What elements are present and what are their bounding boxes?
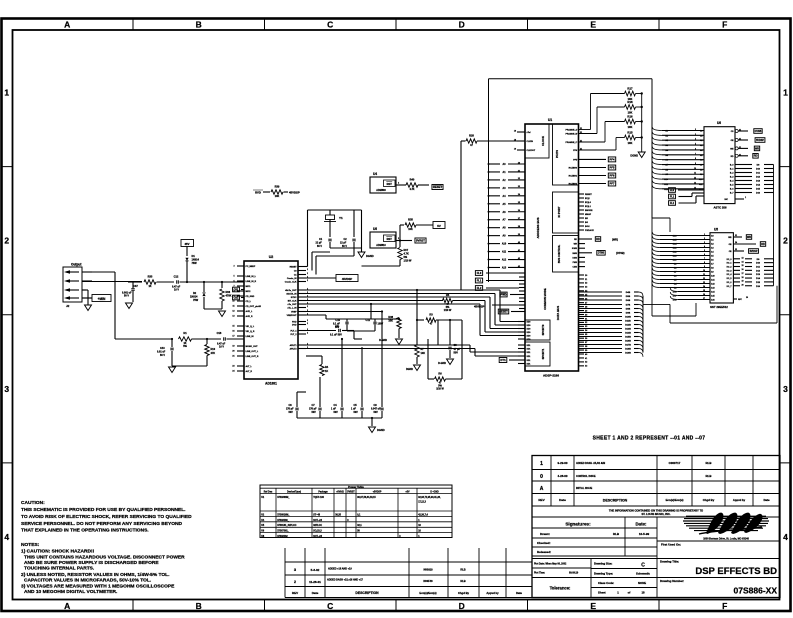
svg-text:SYNC: SYNC bbox=[291, 297, 297, 299]
svg-text:C12: C12 bbox=[174, 275, 179, 279]
svg-text:13: 13 bbox=[703, 282, 705, 284]
svg-text:Chgd By: Chgd By bbox=[703, 498, 715, 502]
svg-text:D: D bbox=[459, 20, 465, 30]
svg-text:AFILT1: AFILT1 bbox=[290, 344, 298, 347]
svg-text:SO,23,3: SO,23,3 bbox=[313, 531, 322, 533]
svg-text:PWDACK: PWDACK bbox=[585, 229, 595, 232]
svg-text:D13B: D13B bbox=[625, 329, 631, 331]
svg-text:18: 18 bbox=[514, 148, 516, 150]
svg-text:B: B bbox=[196, 601, 202, 611]
svg-text:RESET: RESET bbox=[585, 194, 592, 196]
svg-text:DT0B: DT0B bbox=[598, 252, 605, 255]
svg-text:BUS CONTROL: BUS CONTROL bbox=[558, 244, 561, 263]
svg-text:50 V: 50 V bbox=[317, 245, 322, 248]
svg-text:A: A bbox=[64, 20, 70, 30]
svg-text:F: F bbox=[722, 601, 727, 611]
svg-text:16: 16 bbox=[742, 269, 744, 271]
svg-text:FLT_2: FLT_2 bbox=[291, 334, 298, 336]
svg-text:C16: C16 bbox=[217, 331, 222, 335]
svg-text:BGH: BGH bbox=[585, 226, 590, 228]
svg-text:D11B: D11B bbox=[625, 321, 631, 323]
svg-text:D5B: D5B bbox=[626, 296, 631, 298]
svg-text:30: 30 bbox=[746, 297, 748, 299]
svg-text:Date: Date bbox=[763, 498, 770, 502]
svg-text:Date: Date bbox=[312, 591, 319, 595]
svg-text:IRQL0: IRQL0 bbox=[585, 202, 592, 204]
svg-text:J2: J2 bbox=[66, 304, 70, 308]
svg-text:CD_L: CD_L bbox=[246, 301, 252, 303]
svg-text:DVD: DVD bbox=[292, 325, 297, 327]
svg-text:B: B bbox=[196, 20, 202, 30]
svg-text:17: 17 bbox=[232, 336, 234, 338]
svg-text:xTa_OUT: xTa_OUT bbox=[288, 304, 298, 306]
svg-text:REV: REV bbox=[292, 591, 298, 595]
svg-text:10: 10 bbox=[694, 168, 696, 170]
svg-text:CAPACITOR VALUES IN MICROFARAD: CAPACITOR VALUES IN MICROFARADS, 50V-10%… bbox=[24, 578, 152, 584]
svg-text:SOT--23: SOT--23 bbox=[313, 536, 322, 538]
svg-text:19: 19 bbox=[742, 281, 744, 283]
svg-text:N/C: N/C bbox=[738, 299, 742, 301]
svg-text:32,1: 32,1 bbox=[357, 525, 362, 527]
svg-text:THIS SCHEMATIC IS PROVIDED FOR: THIS SCHEMATIC IS PROVIDED FOR USE BY QU… bbox=[21, 507, 186, 513]
svg-text:31: 31 bbox=[518, 170, 520, 172]
svg-text:2: 2 bbox=[307, 269, 308, 271]
svg-text:R16: R16 bbox=[627, 114, 633, 118]
svg-text:10: 10 bbox=[232, 301, 234, 303]
svg-text:4: 4 bbox=[4, 532, 9, 542]
svg-text:RLB: RLB bbox=[706, 474, 712, 478]
svg-text:(WR): (WR) bbox=[612, 238, 618, 242]
svg-text:5VRST: 5VRST bbox=[416, 239, 425, 243]
svg-text:50V: 50V bbox=[354, 411, 359, 414]
svg-text:Package: Package bbox=[318, 492, 328, 494]
svg-text:DSP EFFECTS BD: DSP EFFECTS BD bbox=[695, 566, 777, 577]
svg-text:PF4: PF4 bbox=[610, 157, 615, 161]
svg-text:BMODE: BMODE bbox=[585, 210, 593, 212]
svg-text:18: 18 bbox=[514, 130, 516, 132]
svg-text:MIC2: MIC2 bbox=[246, 291, 252, 293]
svg-text:IO PORT: IO PORT bbox=[557, 206, 561, 217]
svg-text:+5V: +5V bbox=[405, 492, 410, 494]
svg-text:6: 6 bbox=[695, 148, 696, 150]
svg-text:R39: R39 bbox=[275, 185, 280, 189]
svg-text:1: 1 bbox=[745, 197, 746, 199]
svg-text:PC_BEEP: PC_BEEP bbox=[246, 266, 256, 268]
svg-text:R6: R6 bbox=[438, 372, 442, 376]
svg-text:C: C bbox=[327, 20, 333, 30]
svg-text:C: C bbox=[327, 601, 333, 611]
svg-text:4-28-00: 4-28-00 bbox=[558, 474, 568, 478]
svg-text:07S886-XX: 07S886-XX bbox=[734, 586, 778, 596]
svg-text:30: 30 bbox=[518, 162, 520, 164]
svg-text:LINE_IN: LINE_IN bbox=[246, 336, 254, 338]
svg-text:1: 1 bbox=[783, 88, 788, 98]
svg-text:MONO_OUT: MONO_OUT bbox=[246, 346, 259, 348]
svg-text:RCZBR2: RCZBR2 bbox=[569, 184, 578, 186]
svg-text:U1: U1 bbox=[548, 118, 552, 122]
svg-text:Y1: Y1 bbox=[339, 216, 343, 220]
svg-text:17: 17 bbox=[742, 273, 744, 275]
svg-text:N/C: N/C bbox=[725, 199, 729, 201]
svg-text:14: 14 bbox=[694, 186, 696, 189]
svg-text:A12: A12 bbox=[502, 259, 507, 262]
svg-text:DGND: DGND bbox=[630, 154, 638, 158]
svg-text:Tolerance:: Tolerance: bbox=[550, 586, 571, 591]
svg-text:BIT_CLK: BIT_CLK bbox=[288, 301, 297, 303]
svg-text:11: 11 bbox=[694, 173, 696, 175]
svg-text:SPORT0: SPORT0 bbox=[541, 324, 545, 335]
svg-text:C37: C37 bbox=[133, 284, 138, 288]
svg-text:SDATA_IN: SDATA_IN bbox=[286, 293, 297, 296]
svg-text:2: 2 bbox=[704, 238, 705, 240]
svg-text:1: 1 bbox=[4, 88, 9, 98]
svg-text:TOUCHING INTERNAL PARTS.: TOUCHING INTERNAL PARTS. bbox=[24, 566, 95, 572]
svg-text:LINE_IN_R: LINE_IN_R bbox=[246, 281, 257, 283]
svg-text:IRQL1: IRQL1 bbox=[585, 206, 592, 208]
svg-text:AD1881: AD1881 bbox=[265, 382, 277, 386]
svg-text:D16B: D16B bbox=[625, 341, 631, 343]
svg-text:N00F46: N00F46 bbox=[423, 579, 433, 583]
svg-text:xTal: xTal bbox=[527, 132, 531, 134]
svg-text:8: 8 bbox=[704, 262, 705, 264]
svg-text:R3: R3 bbox=[429, 313, 433, 317]
svg-text:1/10 W: 1/10 W bbox=[436, 388, 444, 391]
svg-text:CB1: CB1 bbox=[234, 288, 239, 291]
svg-text:470K: 470K bbox=[226, 295, 232, 298]
svg-text:D19B: D19B bbox=[625, 353, 631, 355]
svg-text:FL2: FL2 bbox=[670, 202, 675, 205]
svg-text:2: 2 bbox=[695, 129, 696, 131]
svg-text:xTa_L_IN: xTa_L_IN bbox=[287, 308, 297, 310]
svg-text:D--GND: D--GND bbox=[430, 492, 439, 494]
svg-text:R10: R10 bbox=[211, 348, 216, 351]
svg-text:45VDSP: 45VDSP bbox=[289, 191, 300, 195]
svg-text:AND BE SURE POWER SUPPLY IS DI: AND BE SURE POWER SUPPLY IS DISCHARGED B… bbox=[24, 560, 159, 566]
svg-text:TO AVOID RISK OF ELECTRIC SHOC: TO AVOID RISK OF ELECTRIC SHOCK, REFER S… bbox=[21, 514, 192, 520]
svg-text:96,97,56,34,18,15: 96,97,56,34,18,15 bbox=[357, 496, 376, 499]
svg-text:37S18162_: 37S18162_ bbox=[277, 536, 289, 538]
svg-text:1/10 W: 1/10 W bbox=[404, 260, 413, 263]
svg-text:Plot Date: When May 06, 2002: Plot Date: When May 06, 2002 bbox=[534, 563, 567, 566]
svg-text:R40: R40 bbox=[410, 178, 415, 182]
svg-text:U4: U4 bbox=[373, 172, 377, 176]
svg-text:2: 2 bbox=[307, 320, 308, 322]
svg-text:RVD: RVD bbox=[255, 191, 261, 195]
svg-text:50V: 50V bbox=[454, 352, 459, 355]
svg-text:5VDSP: 5VDSP bbox=[756, 139, 764, 142]
svg-text:ST. LOUIS MUSIC, INC.: ST. LOUIS MUSIC, INC. bbox=[641, 512, 670, 516]
svg-text:21: 21 bbox=[232, 356, 234, 358]
svg-text:+5VA/2: +5VA/2 bbox=[336, 491, 344, 494]
svg-text:2: 2 bbox=[307, 306, 308, 308]
svg-text:09:09:19: 09:09:19 bbox=[569, 573, 579, 575]
svg-text:PF27S: PF27S bbox=[555, 150, 559, 158]
svg-text:DT1: DT1 bbox=[500, 358, 506, 362]
svg-text:12: 12 bbox=[694, 178, 696, 180]
svg-text:45VDSP: 45VDSP bbox=[342, 277, 353, 281]
svg-text:WR: WR bbox=[747, 236, 751, 239]
svg-text:RST: RST bbox=[387, 182, 393, 186]
svg-text:PF5: PF5 bbox=[610, 165, 615, 169]
svg-text:4: 4 bbox=[704, 245, 705, 248]
svg-text:CD_OUT_ph/dif: CD_OUT_ph/dif bbox=[246, 306, 262, 308]
svg-text:3: 3 bbox=[783, 384, 788, 394]
svg-text:16 V: 16 V bbox=[174, 289, 179, 292]
svg-text:D10B: D10B bbox=[625, 317, 631, 319]
svg-text:R15: R15 bbox=[627, 130, 633, 134]
svg-text:RD: RD bbox=[596, 238, 600, 241]
svg-text:Chgd By: Chgd By bbox=[458, 591, 470, 595]
svg-text:U6: U6 bbox=[717, 121, 721, 125]
svg-text:4: 4 bbox=[783, 532, 788, 542]
svg-text:Class Code:: Class Code: bbox=[598, 581, 614, 585]
svg-text:18: 18 bbox=[742, 277, 744, 279]
svg-text:D8B: D8B bbox=[626, 309, 631, 311]
svg-text:5V: 5V bbox=[437, 224, 441, 228]
svg-text:Date:: Date: bbox=[636, 522, 648, 527]
svg-text:1: 1 bbox=[704, 234, 705, 236]
svg-text:DMS: DMS bbox=[573, 257, 578, 259]
svg-text:CLOCK: CLOCK bbox=[541, 136, 545, 146]
svg-text:CVSB: CVSB bbox=[755, 130, 762, 133]
svg-text:THAT EXPLAINED IN THE OPERATIN: THAT EXPLAINED IN THE OPERATING INSTRUCT… bbox=[21, 528, 149, 534]
svg-text:INITIAL ISSUE: INITIAL ISSUE bbox=[576, 487, 593, 490]
svg-text:3: 3 bbox=[695, 134, 696, 136]
svg-text:DESCRIPTION: DESCRIPTION bbox=[355, 591, 379, 595]
svg-text:D9B: D9B bbox=[626, 313, 631, 315]
svg-text:17: 17 bbox=[703, 298, 705, 300]
svg-text:38: 38 bbox=[518, 226, 520, 228]
svg-text:11: 11 bbox=[703, 274, 705, 276]
svg-text:33: 33 bbox=[518, 186, 520, 188]
svg-text:E: E bbox=[590, 601, 596, 611]
svg-text:R18: R18 bbox=[627, 100, 633, 104]
svg-text:20: 20 bbox=[232, 351, 234, 353]
svg-text:75W: 75W bbox=[193, 299, 199, 302]
svg-text:ASTC 206: ASTC 206 bbox=[713, 206, 727, 210]
svg-text:R28: R28 bbox=[469, 134, 474, 138]
svg-text:2: 2 bbox=[294, 580, 296, 584]
svg-text:LINE_OUT_R: LINE_OUT_R bbox=[246, 356, 259, 358]
svg-text:PRAMSE_C: PRAMSE_C bbox=[565, 141, 577, 144]
svg-text:Drawn:: Drawn: bbox=[540, 532, 550, 536]
svg-text:COMMON MODE: COMMON MODE bbox=[543, 288, 547, 310]
svg-text:3: 3 bbox=[704, 242, 705, 244]
svg-text:10K: 10K bbox=[628, 141, 633, 145]
svg-text:C000717: C000717 bbox=[669, 461, 681, 465]
svg-text:D14B: D14B bbox=[625, 332, 631, 335]
svg-text:10K: 10K bbox=[628, 125, 633, 129]
svg-text:RCZBR0: RCZBR0 bbox=[569, 168, 578, 170]
svg-text:ADSP-2186: ADSP-2186 bbox=[543, 374, 559, 378]
svg-text:U2: U2 bbox=[269, 255, 274, 259]
svg-text:42,36,7,4: 42,36,7,4 bbox=[418, 513, 428, 516]
svg-text:5VRST: 5VRST bbox=[347, 492, 355, 494]
svg-text:Signatures:: Signatures: bbox=[565, 522, 591, 527]
svg-text:Ecn(s)/Ecn(s): Ecn(s)/Ecn(s) bbox=[419, 591, 436, 595]
svg-text:Released:: Released: bbox=[537, 550, 551, 554]
svg-text:47K: 47K bbox=[211, 352, 216, 355]
svg-text:16 V: 16 V bbox=[219, 346, 224, 349]
svg-text:13: 13 bbox=[232, 316, 234, 318]
svg-text:Cmain_CLK: Cmain_CLK bbox=[285, 282, 297, 284]
svg-text:D17B: D17B bbox=[625, 345, 631, 347]
svg-text:Date: Date bbox=[516, 591, 522, 595]
svg-text:2: 2 bbox=[783, 236, 788, 246]
svg-text:Ecn(s)/Ecn(s): Ecn(s)/Ecn(s) bbox=[666, 498, 684, 502]
svg-text:14: 14 bbox=[703, 285, 705, 288]
svg-text:BG: BG bbox=[585, 222, 588, 224]
svg-text:RLB: RLB bbox=[460, 579, 465, 583]
svg-text:ADDRESS BUS: ADDRESS BUS bbox=[536, 217, 540, 238]
svg-text:AFILT2: AFILT2 bbox=[290, 348, 298, 351]
svg-text:31: 31 bbox=[739, 147, 741, 149]
svg-text:39: 39 bbox=[518, 234, 520, 236]
svg-text:A10: A10 bbox=[502, 243, 507, 246]
svg-text:Ref Des: Ref Des bbox=[264, 492, 273, 494]
svg-text:(DT0B): (DT0B) bbox=[616, 251, 625, 255]
svg-text:D6B: D6B bbox=[626, 300, 631, 302]
svg-text:PMS: PMS bbox=[573, 262, 578, 264]
svg-text:WR: WR bbox=[755, 147, 759, 150]
svg-text:Date: Date bbox=[559, 498, 566, 502]
svg-text:Cmain_IN: Cmain_IN bbox=[287, 278, 297, 280]
svg-text:31: 31 bbox=[735, 235, 737, 237]
svg-text:PRAMSE_A: PRAMSE_A bbox=[565, 129, 577, 132]
svg-text:43: 43 bbox=[518, 265, 520, 268]
svg-text:Checked:: Checked: bbox=[537, 541, 551, 545]
svg-text:A11: A11 bbox=[502, 251, 507, 254]
svg-text:6: 6 bbox=[704, 254, 705, 256]
svg-text:Drawing Type:: Drawing Type: bbox=[594, 572, 613, 576]
svg-text:22: 22 bbox=[735, 249, 737, 251]
svg-text:SERVICE PERSONNEL. DO NOT PER: SERVICE PERSONNEL. DO NOT PERFORM ANY SE… bbox=[21, 521, 183, 527]
svg-text:9: 9 bbox=[704, 266, 705, 268]
svg-text:1600 Borman Drive, St. Louis,: 1600 Borman Drive, St. Louis, MO 63146 bbox=[703, 538, 749, 541]
svg-text:DESCRIPTION: DESCRIPTION bbox=[603, 499, 628, 503]
svg-text:2: 2 bbox=[4, 236, 9, 246]
svg-text:D7B: D7B bbox=[626, 305, 631, 307]
svg-text:7: 7 bbox=[695, 153, 696, 155]
svg-text:CLKOUT: CLKOUT bbox=[527, 150, 536, 152]
svg-text:12: 12 bbox=[232, 311, 234, 313]
svg-text:Schematic: Schematic bbox=[636, 572, 650, 576]
svg-text:9: 9 bbox=[695, 163, 696, 165]
svg-text:41: 41 bbox=[518, 249, 520, 252]
svg-text:50V: 50V bbox=[312, 411, 317, 414]
svg-text:Appvd by: Appvd by bbox=[486, 591, 499, 595]
svg-text:WR: WR bbox=[574, 244, 578, 246]
svg-text:R5: R5 bbox=[446, 293, 450, 297]
svg-text:1: 1 bbox=[540, 461, 543, 467]
svg-text:50V: 50V bbox=[374, 411, 379, 414]
svg-text:PF7: PF7 bbox=[610, 181, 615, 185]
svg-text:N00919: N00919 bbox=[423, 568, 433, 572]
svg-text:1/10 W: 1/10 W bbox=[444, 309, 452, 312]
svg-text:VREF: VREF bbox=[291, 312, 297, 314]
svg-text:40: 40 bbox=[518, 241, 520, 244]
svg-text:D-GND: D-GND bbox=[438, 362, 446, 365]
svg-text:16: 16 bbox=[703, 294, 705, 296]
svg-text:9-29-00: 9-29-00 bbox=[558, 461, 568, 465]
svg-text:42: 42 bbox=[518, 257, 520, 260]
svg-text:+5VDSP: +5VDSP bbox=[373, 492, 382, 494]
svg-text:C11: C11 bbox=[366, 319, 371, 322]
svg-text:10K: 10K bbox=[421, 352, 426, 355]
svg-text:F: F bbox=[722, 20, 727, 30]
svg-text:31: 31 bbox=[739, 139, 741, 141]
svg-text:ADDED DASH +15,+16 AND +17: ADDED DASH +15,+16 AND +17 bbox=[327, 579, 364, 582]
svg-text:SHEET 1 AND 2 REPRESENT --01 A: SHEET 1 AND 2 REPRESENT --01 AND --07 bbox=[593, 436, 706, 442]
svg-text:D-GND: D-GND bbox=[379, 339, 387, 342]
svg-text:7: 7 bbox=[704, 258, 705, 260]
svg-text:DGND: DGND bbox=[406, 368, 413, 371]
svg-text:DGND: DGND bbox=[366, 254, 374, 258]
svg-text:RESET: RESET bbox=[290, 267, 298, 269]
svg-text:17,12,3: 17,12,3 bbox=[418, 502, 426, 504]
svg-text:50V: 50V bbox=[334, 411, 339, 414]
svg-text:50 V: 50 V bbox=[124, 295, 129, 298]
svg-text:18: 18 bbox=[641, 591, 645, 595]
svg-text:SST 29EE512: SST 29EE512 bbox=[710, 305, 728, 309]
svg-text:RCZBR1: RCZBR1 bbox=[569, 176, 578, 178]
svg-text:D12B: D12B bbox=[625, 325, 631, 327]
svg-text:FL0: FL0 bbox=[477, 271, 482, 275]
svg-text:AUX_L: AUX_L bbox=[246, 310, 254, 313]
svg-text:VID_Q_R: VID_Q_R bbox=[246, 331, 255, 333]
svg-text:CD_GND: CD_GND bbox=[246, 296, 255, 298]
svg-text:R33: R33 bbox=[148, 275, 153, 279]
svg-text:11: 11 bbox=[233, 306, 235, 308]
svg-text:LINE_OUT_L: LINE_OUT_L bbox=[246, 351, 259, 353]
svg-text:FLT_1: FLT_1 bbox=[291, 331, 298, 333]
svg-text:15: 15 bbox=[742, 265, 744, 267]
svg-text:3: 3 bbox=[233, 266, 234, 268]
svg-text:D4B: D4B bbox=[626, 291, 631, 294]
svg-text:23: 23 bbox=[232, 366, 234, 368]
svg-text:First Used On:: First Used On: bbox=[661, 543, 681, 547]
svg-text:10-5-99: 10-5-99 bbox=[639, 532, 650, 536]
svg-text:FL2: FL2 bbox=[477, 286, 482, 290]
svg-text:D15B: D15B bbox=[625, 337, 631, 339]
svg-text:Device/Type): Device/Type) bbox=[287, 492, 301, 494]
svg-text:2: 2 bbox=[307, 333, 308, 335]
svg-text:37S67361_: 37S67361_ bbox=[277, 531, 289, 533]
svg-text:15: 15 bbox=[232, 326, 234, 328]
svg-text:12: 12 bbox=[703, 278, 705, 280]
svg-text:A13: A13 bbox=[502, 266, 507, 269]
svg-text:REV: REV bbox=[538, 498, 545, 502]
svg-text:36,35: 36,35 bbox=[335, 514, 341, 516]
svg-text:5VDSP: 5VDSP bbox=[750, 250, 758, 253]
svg-text:13: 13 bbox=[742, 258, 744, 260]
svg-text:10K: 10K bbox=[388, 320, 393, 323]
svg-text:Drawing Title:: Drawing Title: bbox=[660, 560, 679, 564]
svg-text:16: 16 bbox=[232, 331, 234, 333]
svg-text:6: 6 bbox=[233, 281, 234, 283]
svg-text:THIS UNIT CONTAINS HAZARDOUS V: THIS UNIT CONTAINS HAZARDOUS VOLTAGE. DI… bbox=[24, 555, 185, 561]
svg-text:ADM810: ADM810 bbox=[376, 244, 386, 247]
svg-text:THE INFORMATION CONTAINED ON T: THE INFORMATION CONTAINED ON THIS DRAWIN… bbox=[609, 509, 703, 513]
svg-text:3) VOLTAGES ARE MEASURED WITH: 3) VOLTAGES ARE MEASURED WITH 1 MEGOHM O… bbox=[21, 584, 175, 590]
svg-text:37S6816M_: 37S6816M_ bbox=[277, 514, 290, 516]
svg-text:45xTa_OUT: 45xTa_OUT bbox=[285, 289, 297, 292]
svg-text:RVD: RVD bbox=[292, 322, 297, 324]
svg-text:RLB: RLB bbox=[613, 532, 620, 536]
svg-text:3: 3 bbox=[4, 384, 9, 394]
svg-text:50 V: 50 V bbox=[160, 354, 165, 357]
svg-text:11-28-01: 11-28-01 bbox=[309, 580, 321, 584]
